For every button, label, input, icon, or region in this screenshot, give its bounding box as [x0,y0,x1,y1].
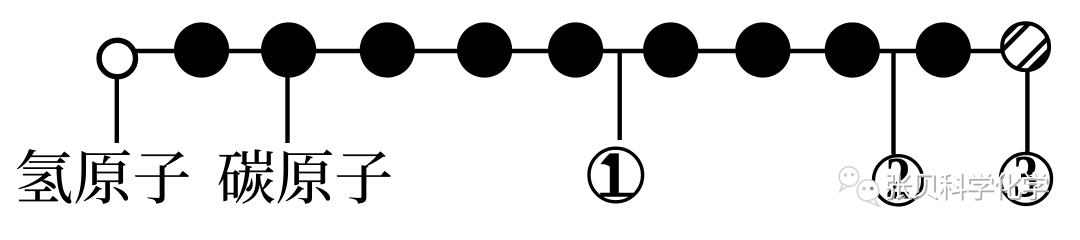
chlorine atom: hatched circle [948,0,1080,90]
node 3: circled number 3 [1001,144,1052,211]
wire: horizontal bond chain line [117,49,1026,53]
wire: vertical line from bond to circled 1 [618,51,622,140]
carbon atom C8: black circle [825,22,880,77]
watermark: text 张贝科学化学 [885,172,1049,201]
carbon atom C9: black circle [916,22,971,77]
watermark: WeChat logo bubbles [839,167,879,206]
label: 碳原子 (carbon atom) [218,149,390,203]
carbon atom C5: black circle [548,22,603,77]
wire: vertical line from bond to circled 2 [891,51,895,155]
carbon atom C6: black circle [643,22,698,77]
hydrogen atom: white circle [99,40,135,76]
label: 氢原子 (hydrogen atom) [17,149,189,204]
carbon atom C3: black circle [360,22,415,77]
wire: vertical line from hydrogen atom to label [115,70,119,143]
node 2: circled number 2 [874,146,923,213]
carbon atom C2: black circle [261,22,316,77]
carbon atom C4: black circle [457,22,512,77]
wire: vertical line from hatched atom to circled 3 [1025,66,1029,153]
carbon atom C7: black circle [735,22,790,77]
wire: vertical line from carbon atom 2 to label [285,70,289,143]
node 1: circled number 1 [589,148,643,202]
carbon atom C1: black circle [174,22,229,77]
